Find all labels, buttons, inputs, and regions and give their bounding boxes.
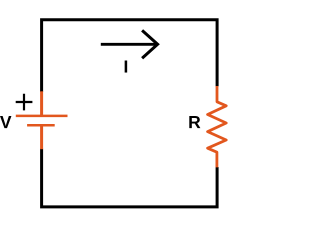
label I xyxy=(125,61,128,73)
battery V bottom lead xyxy=(40,125,43,149)
label R xyxy=(189,116,200,128)
label plus sign xyxy=(16,94,33,111)
current arrow shaft xyxy=(101,43,156,46)
battery V short plate xyxy=(27,124,55,127)
battery V top lead xyxy=(40,91,43,116)
label V xyxy=(0,116,11,128)
wire bottom loop (left vertical lower, bottom wire, right vertical lower) xyxy=(42,149,218,207)
resistor R zigzag xyxy=(208,86,227,167)
battery V long plate xyxy=(16,115,68,118)
current arrow head xyxy=(142,30,158,58)
wire top loop (left vertical upper, top wire, right vertical upper) xyxy=(42,20,218,92)
